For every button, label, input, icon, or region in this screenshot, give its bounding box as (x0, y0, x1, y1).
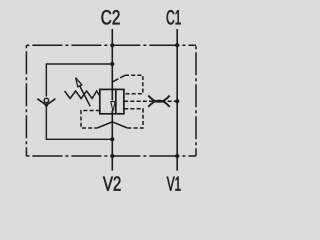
port label V2 (103, 176, 121, 190)
junction dot C1/border (175, 43, 179, 47)
enclosure boundary bottom (dash-dot) (26, 155, 196, 157)
drain line right wing (dashed) (124, 109, 143, 128)
junction dot C2/border (110, 43, 114, 47)
spring (adjustable) zigzag (65, 91, 100, 99)
drain line right diagonal to V2 (112, 122, 127, 128)
wire top branch to check valve (46, 64, 112, 97)
pilot line middle to C1 (dashed) (124, 100, 176, 102)
junction dot C2 branch (110, 62, 114, 66)
junction dot V1/border (175, 154, 179, 158)
enclosure boundary right (dash-dot) (195, 45, 197, 156)
enclosure boundary top (dash-dot) (26, 44, 196, 46)
drain line left diagonal to V2 (97, 122, 112, 128)
wire C2-V2 main vertical upper (111, 29, 113, 100)
wire C2-V2 main vertical lower (111, 110, 113, 170)
wire bottom branch from check valve (46, 105, 112, 140)
check valve CV1 seat junction dot (45, 104, 48, 107)
junction dot pilot/C1 (175, 99, 179, 103)
valve U1 envelope (100, 89, 124, 113)
drain line left wing (dashed) (81, 111, 100, 129)
adjustment arrow shaft (80, 86, 91, 107)
pilot line top loop to valve right top port (dashed) (124, 75, 143, 94)
port label C1 (167, 10, 181, 24)
orifice (fixed restrictor) bottom arc (148, 101, 169, 107)
orifice (fixed restrictor) top arc (148, 96, 169, 102)
adjustment arrow head (hollow) (76, 78, 82, 87)
valve U1 flow arrow (hollow) (111, 102, 115, 112)
valve U1 pilot-ratio divider (115, 89, 117, 113)
wire C1-V1 main vertical (176, 29, 178, 171)
pilot line top diagonal from C2 (112, 75, 125, 82)
check valve CV1 ball (44, 98, 48, 102)
port label C2 (102, 10, 120, 24)
check valve CV1 seat (37, 99, 55, 106)
junction dot V2 branch (110, 137, 114, 141)
port label V1 (167, 177, 181, 191)
junction dot V2/border (110, 154, 114, 158)
enclosure boundary left (dash-dot) (25, 45, 27, 156)
